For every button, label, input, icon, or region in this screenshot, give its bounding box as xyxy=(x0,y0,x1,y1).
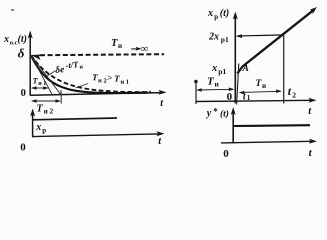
svg-text:и: и xyxy=(262,82,266,90)
svg-text:T: T xyxy=(114,73,120,83)
svg-text:T: T xyxy=(111,38,118,49)
svg-text:∞: ∞ xyxy=(141,43,149,55)
svg-text:2: 2 xyxy=(292,91,296,100)
y-axis (y*(t) axis) xyxy=(231,107,236,143)
solid exponential curve delta*e^(-t/Ti1) xyxy=(31,55,148,93)
y-axis (x_p axis) xyxy=(233,12,238,104)
label t1 xyxy=(243,92,251,103)
T_i1 dimension arrow xyxy=(31,86,49,90)
step jump line at t1 xyxy=(237,64,239,105)
right T_i dimension arrow xyxy=(239,89,282,94)
svg-text:(t): (t) xyxy=(220,8,229,19)
svg-text:T: T xyxy=(37,104,44,115)
y-axis xyxy=(30,109,35,138)
label x_p xyxy=(35,122,46,135)
svg-text:>: > xyxy=(107,73,112,83)
svg-text:р: р xyxy=(214,13,218,21)
svg-text:x: x xyxy=(35,122,41,133)
label 2x_p1 xyxy=(208,32,229,45)
svg-text:x: x xyxy=(211,63,217,74)
step line x_p level xyxy=(33,118,117,120)
label left T_i xyxy=(207,76,220,89)
svg-text:и 2: и 2 xyxy=(98,77,107,84)
svg-text:0: 0 xyxy=(227,91,233,103)
svg-text:(t): (t) xyxy=(18,34,27,45)
svg-text:0: 0 xyxy=(223,148,229,159)
label y*(t) xyxy=(206,107,229,120)
svg-text:р: р xyxy=(42,126,46,134)
svg-text:и 2: и 2 xyxy=(44,108,54,116)
x-axis (t axis) xyxy=(196,98,317,103)
tick at T_i2 xyxy=(60,90,62,104)
tick at -T_i with dot xyxy=(194,80,198,104)
T_i2 dimension arrow xyxy=(31,99,61,103)
label T_i -> infinity xyxy=(111,38,149,55)
label T_i2 xyxy=(37,104,54,116)
label right T_i xyxy=(256,79,267,90)
label x_p(t) xyxy=(207,8,229,21)
svg-text:y: y xyxy=(206,108,212,119)
y-axis (x_oc axis) xyxy=(28,31,33,96)
speck top-left xyxy=(11,9,14,11)
svg-text:и 1: и 1 xyxy=(38,81,46,87)
label T_i1 xyxy=(33,76,47,88)
svg-text:δ: δ xyxy=(18,46,25,61)
ramp line (PI integral action) xyxy=(237,7,316,74)
step line y* level xyxy=(233,124,310,127)
svg-text:A: A xyxy=(242,64,249,74)
svg-text:о.с: о.с xyxy=(10,40,18,47)
svg-text:x: x xyxy=(3,34,9,45)
tangent line 1 (crosses axis at T_i1) xyxy=(31,55,52,95)
svg-text:0: 0 xyxy=(20,141,26,153)
svg-text:2x: 2x xyxy=(208,32,219,43)
vertical line at t2 xyxy=(283,35,285,104)
svg-text:и: и xyxy=(215,80,220,89)
label x_oc(t) xyxy=(3,34,27,47)
label delta*e^(-t/Ti) xyxy=(54,59,84,76)
svg-text:x: x xyxy=(207,8,213,19)
leader line from T_i2>T_i1 label to dashed curve xyxy=(76,84,89,89)
svg-text:-t/T: -t/T xyxy=(65,59,80,70)
leader line from delta*e label to solid curve xyxy=(46,71,56,77)
svg-text:1: 1 xyxy=(247,94,251,102)
svg-text:0: 0 xyxy=(21,88,26,99)
svg-text:*: * xyxy=(213,107,218,117)
label t2 xyxy=(288,84,297,100)
horizontal line at 2x_p1 level with left arrowhead xyxy=(236,34,284,38)
x-axis (t axis) xyxy=(31,90,167,95)
dashed line at delta level (T_i -> infinity) with left arrowhead xyxy=(31,54,164,60)
svg-text:(t): (t) xyxy=(220,109,229,120)
svg-text:и 1: и 1 xyxy=(120,79,129,86)
dashed exponential curve (T_i2) xyxy=(31,55,151,92)
x-axis xyxy=(32,131,165,136)
svg-text:и: и xyxy=(118,42,122,50)
left T_i dimension arrow xyxy=(196,88,234,92)
tangent line 2 (crosses axis at T_i2) xyxy=(31,55,61,95)
svg-text:р1: р1 xyxy=(218,67,226,76)
label x_p1 xyxy=(211,63,226,76)
x-axis xyxy=(221,139,317,144)
svg-text:р1: р1 xyxy=(221,35,229,44)
label T_i2 > T_i1 xyxy=(92,72,130,86)
